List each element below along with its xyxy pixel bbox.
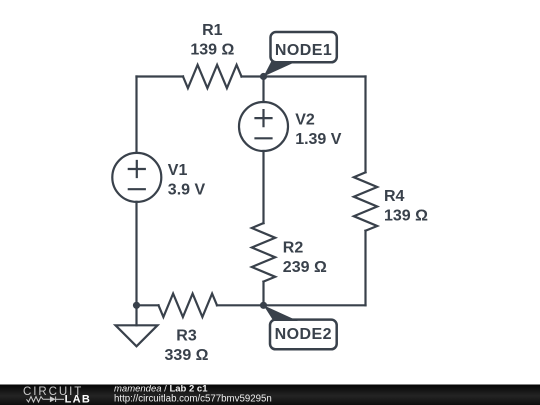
- svg-text:NODE2: NODE2: [275, 326, 332, 343]
- svg-text:R4: R4: [384, 188, 405, 205]
- svg-text:R2: R2: [283, 239, 304, 256]
- svg-text:R1: R1: [202, 22, 223, 39]
- svg-text:1.39 V: 1.39 V: [295, 131, 342, 148]
- svg-text:139 Ω: 139 Ω: [384, 208, 428, 225]
- svg-text:239 Ω: 239 Ω: [283, 259, 327, 276]
- svg-text:V1: V1: [168, 162, 188, 179]
- svg-text:LAB: LAB: [65, 394, 92, 405]
- svg-text:R3: R3: [176, 328, 197, 345]
- svg-text:339 Ω: 339 Ω: [165, 347, 209, 364]
- svg-text:3.9 V: 3.9 V: [168, 182, 206, 199]
- svg-text:http://circuitlab.com/c577bmv5: http://circuitlab.com/c577bmv59295n: [114, 393, 272, 404]
- svg-text:139 Ω: 139 Ω: [190, 42, 234, 59]
- svg-text:V2: V2: [295, 112, 315, 129]
- svg-text:NODE1: NODE1: [275, 42, 332, 59]
